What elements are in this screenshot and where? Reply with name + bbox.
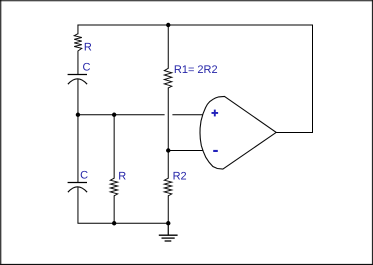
wire R middle upper lead: [113, 115, 115, 179]
node bottom bus R2 ground junction: [166, 221, 170, 225]
node bottom bus R junction: [112, 221, 116, 225]
svg-text:C: C: [83, 62, 91, 74]
svg-text:R1= 2R2: R1= 2R2: [174, 64, 218, 76]
svg-text:R2: R2: [173, 171, 187, 183]
ground bar 1: [159, 234, 178, 236]
svg-text:C: C: [80, 170, 88, 182]
wire R top to C1: [77, 51, 79, 75]
node middle bus left column junction: [76, 113, 80, 117]
node minus input R1 R2 junction: [166, 148, 170, 152]
wire left column upper lead: [77, 25, 79, 35]
wire feedback right vertical: [312, 25, 314, 133]
wire R1 branch upper lead from top bus: [167, 25, 169, 69]
capacitor C1 curved plate: [68, 79, 87, 84]
resistor R top: [74, 34, 82, 51]
svg-text:R: R: [84, 41, 92, 53]
wire R2 upper lead: [167, 151, 169, 179]
ground bar 2: [162, 237, 175, 239]
wire C2 to bottom bus: [77, 187, 79, 223]
wire R1 to minus node: [167, 88, 169, 151]
resistor R middle: [110, 178, 117, 196]
svg-text:R: R: [118, 171, 126, 183]
wire C1 to middle bus: [77, 79, 79, 115]
wire R middle lower lead: [113, 195, 115, 223]
ground stem: [167, 223, 169, 235]
wire middle bus after crossover gap to op-amp plus input: [172, 114, 202, 116]
wire middle bus to crossover gap: [77, 114, 164, 116]
wire op-amp output: [276, 132, 313, 134]
wire op-amp minus input stub: [168, 150, 203, 152]
wire top bus: [77, 24, 313, 26]
ground bar 3: [165, 240, 172, 242]
wire left column middle bus to C2: [77, 115, 79, 183]
capacitor C2 flat plate: [68, 182, 87, 184]
op-amp minus symbol: [213, 150, 218, 152]
wire R2 lower lead: [167, 195, 169, 223]
node top bus R1 junction: [166, 23, 170, 27]
resistor R1: [164, 68, 172, 88]
capacitor C1 flat plate: [68, 74, 87, 76]
resistor R2: [164, 178, 172, 196]
capacitor C2 curved plate: [68, 187, 87, 192]
op-amp plus symbol: [212, 110, 219, 117]
node middle bus R junction: [112, 113, 116, 117]
op-amp U1: [200, 96, 276, 169]
wire bottom bus: [77, 222, 168, 224]
